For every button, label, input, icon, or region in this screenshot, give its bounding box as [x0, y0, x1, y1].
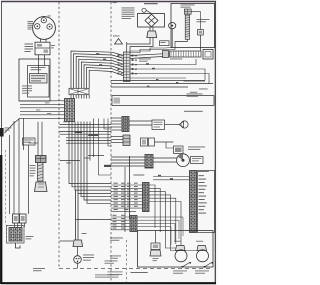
compressor compartment outer box	[19, 59, 50, 101]
board pin label B7	[199, 195, 207, 198]
board row A4 label	[114, 192, 118, 195]
wire relay to capacitor box b	[44, 55, 46, 59]
wire misc vert right 2	[99, 119, 112, 176]
wire left vertical 4	[23, 119, 25, 151]
ff switch label	[195, 270, 209, 273]
outlet label	[83, 254, 94, 257]
ac strip ticks row 1	[118, 55, 120, 57]
wire left vertical 3	[18, 119, 20, 215]
wire bundle left row 4	[20, 110, 65, 112]
wire label mark b	[104, 165, 111, 167]
board pin label B5	[199, 188, 206, 191]
wire sw to damper box	[155, 141, 174, 143]
heater row tick a	[146, 63, 149, 65]
wire 12v row 1	[111, 117, 122, 119]
small relay box	[160, 41, 170, 46]
wire center drop corner 7	[87, 122, 111, 204]
wire heater column a	[37, 122, 39, 156]
wire center riser lower 8	[88, 95, 90, 99]
heater sleeve	[38, 163, 44, 182]
board pin label B6	[199, 191, 204, 194]
wire 12v row 3	[111, 123, 122, 125]
wire heater to terminal	[191, 12, 200, 30]
compressor run terminal R	[47, 24, 52, 29]
wire board row C2	[111, 219, 130, 221]
12v conn 2	[123, 135, 130, 146]
wire center riser lower 2	[73, 95, 75, 99]
plug pins	[14, 223, 16, 227]
wire A-to-down 2	[149, 188, 160, 232]
heater sleeve label	[30, 164, 36, 167]
wire 12v row 4	[111, 126, 122, 128]
wire inside compartment a	[38, 59, 40, 74]
board row A8 label	[114, 205, 118, 208]
wire row2 a	[111, 136, 123, 138]
wire center drop corner 1	[69, 122, 111, 184]
bottom center text	[95, 274, 119, 277]
dashed divider x126	[126, 240, 128, 283]
wire branch row D	[66, 142, 111, 144]
border frame top	[1, 1, 216, 3]
wire bundle left row 6	[20, 117, 65, 119]
wire row labels	[45, 102, 49, 105]
wire center riser 7	[87, 68, 124, 89]
wire 12v row 5	[111, 129, 122, 131]
left small text a	[110, 255, 121, 258]
heater end box	[203, 50, 213, 60]
board row A5 label	[114, 195, 118, 198]
board row A1 label	[114, 182, 118, 185]
wire board row A4	[111, 194, 143, 196]
heater plug	[35, 182, 48, 192]
wire mid seg label	[84, 157, 90, 160]
wire left vertical 2	[13, 121, 15, 214]
dashed divider x59	[58, 2, 60, 269]
ff lamp connector	[197, 246, 207, 251]
ac strip ticks row 4	[118, 68, 120, 70]
wire misc vert right 3	[104, 119, 111, 130]
icemaker label box	[191, 157, 204, 164]
wire center drop corner 6	[84, 122, 111, 201]
relay label left	[25, 44, 34, 45]
compressor terminal label	[48, 15, 51, 18]
wire center riser lower 1	[70, 95, 72, 99]
damper motor	[177, 154, 190, 167]
wire board row A5	[111, 197, 143, 199]
wire nut box	[23, 138, 36, 145]
wire ice row 1	[111, 156, 145, 158]
wire bundle left row 5	[20, 114, 65, 116]
left small text b	[105, 260, 118, 263]
control board left edge	[129, 156, 131, 219]
wire board row C1	[111, 216, 130, 218]
left plug P1	[13, 214, 20, 223]
wire relay to capacitor box a	[38, 55, 40, 59]
wire ice to circle	[153, 157, 177, 159]
ambient thermistor	[115, 39, 123, 45]
freezer lamp connector	[176, 246, 186, 251]
wire center riser 4	[79, 59, 124, 88]
small circle node	[142, 8, 146, 12]
wire branch row A2	[60, 126, 112, 128]
lamp module box	[152, 120, 165, 130]
wire compressor to relay right	[45, 39, 47, 42]
dashed divider bottom y268	[59, 268, 213, 270]
wire ice row 2	[111, 159, 145, 161]
border frame bottom	[1, 282, 216, 284]
wire compressor to relay left	[40, 39, 42, 42]
wire outlet to dash	[77, 263, 79, 268]
heater row tick b	[152, 68, 155, 70]
wire plug feed	[155, 231, 157, 244]
wire board row A8	[111, 207, 143, 209]
board pin label B12	[199, 212, 207, 215]
wire center riser 1	[71, 51, 124, 88]
defrost heater connector	[184, 9, 191, 14]
wire bundle left row 3	[20, 107, 65, 109]
ac harness label	[187, 93, 203, 96]
board row A9 label	[114, 208, 118, 211]
wire evap conn drop b	[130, 38, 153, 53]
board row A3 label	[114, 188, 118, 191]
ice connector block	[145, 155, 153, 169]
evaporator fan label	[144, 2, 158, 5]
power feed diagonal wire	[5, 118, 21, 133]
freezer switch label	[173, 270, 187, 273]
bottom text block	[108, 271, 123, 274]
wire center riser lower 6	[83, 95, 85, 99]
ff switch	[205, 263, 212, 267]
capacitor label above	[31, 66, 46, 69]
run capacitor	[30, 74, 48, 84]
heater strip label	[170, 58, 182, 61]
wire node to box	[146, 10, 151, 13]
wire misc vert right 1	[93, 119, 95, 158]
border frame left black band	[0, 155, 2, 284]
wire mid seg 2	[60, 160, 80, 162]
wire lamp to led	[165, 124, 180, 126]
light box plug upper	[151, 243, 160, 250]
wire board row C5	[111, 229, 130, 231]
compressor motor circle	[33, 17, 56, 40]
wire branch row A1	[60, 124, 112, 126]
ac harness bottom line	[112, 105, 214, 107]
board pin label B3	[199, 181, 205, 184]
defrost thermostat oval	[169, 23, 176, 29]
defrost box	[171, 4, 215, 48]
riser row tick a	[96, 53, 99, 55]
PWR label	[5, 127, 12, 130]
wire ice row 4	[111, 165, 145, 167]
evap fan connector	[147, 31, 157, 38]
wire center riser lower 7	[86, 95, 88, 99]
wire strip right row 4	[130, 69, 205, 80]
cab air label	[184, 81, 206, 82]
compressor compartment inner box	[28, 66, 50, 98]
wire board row A3	[111, 191, 143, 193]
ff lamp	[197, 250, 209, 262]
wire board row A7	[111, 204, 143, 206]
overload relay box	[35, 42, 50, 55]
capacitor label below	[22, 85, 32, 88]
wire label mark a	[89, 134, 99, 136]
ff compact label	[110, 237, 123, 240]
light box plug lower	[150, 250, 161, 256]
board pin strip B	[190, 171, 197, 233]
heater connector block	[36, 156, 47, 163]
wire center drop 8	[89, 122, 91, 161]
board row C2 label	[113, 217, 117, 220]
wire bundle left row 1	[20, 100, 65, 102]
wire board row A6	[111, 201, 143, 203]
wire center drop corner 4	[78, 122, 111, 194]
led symbol	[179, 122, 184, 128]
wire thermostat route	[130, 48, 172, 52]
board pin label B8	[199, 198, 205, 201]
defrost sensor label	[197, 18, 210, 21]
damper labels	[188, 146, 205, 149]
12v connector block	[122, 117, 129, 132]
board conn C	[130, 216, 137, 232]
power cord dashed box	[7, 226, 25, 244]
wire A-to-down 3	[149, 192, 166, 246]
board pin strip A	[143, 183, 150, 212]
board row A2 label	[114, 185, 118, 188]
wire A-to-down 5	[149, 198, 176, 244]
wire strip right row 5	[130, 74, 209, 85]
damper module box	[174, 146, 184, 154]
board row C3 label	[113, 220, 117, 223]
wire branch row B2	[60, 133, 112, 135]
ac strip top lead	[126, 42, 128, 52]
ac strip ticks row 5	[118, 73, 120, 75]
wire left vertical pwr	[9, 135, 11, 214]
board pin label B11	[199, 208, 204, 211]
wire to left y241	[60, 240, 74, 242]
wire strip right row 3	[130, 59, 196, 65]
left edge blotch	[0, 128, 4, 137]
wire board row C3	[111, 222, 130, 224]
wire bottom long	[76, 190, 112, 219]
defrost terminal box	[198, 30, 204, 36]
border frame right	[214, 2, 216, 284]
wire strip to conn	[130, 54, 163, 56]
main harness connector	[65, 99, 75, 122]
evap fan pins	[149, 27, 151, 31]
wire ground drop a	[75, 220, 77, 241]
board row C4 label	[113, 223, 117, 226]
light box	[138, 231, 214, 268]
relay label right	[51, 44, 55, 47]
notes text block	[122, 7, 135, 10]
wire mid seg 1	[88, 155, 104, 157]
wire vertical x125	[124, 167, 126, 232]
board row A7 label	[114, 202, 118, 205]
amplifier centre label	[131, 272, 148, 273]
wire 12v row 2	[111, 120, 122, 122]
defrost heater strip	[170, 51, 202, 57]
wire corner to left	[29, 142, 39, 144]
wire center riser 2	[74, 54, 124, 89]
wire heater element exit	[175, 39, 187, 47]
wire board row A9	[111, 210, 136, 212]
harness asm label	[33, 267, 45, 270]
compressor label	[28, 20, 34, 23]
wire A-to-down 6	[149, 202, 181, 249]
ac harness right hook	[213, 96, 215, 106]
wire strip right row 6	[130, 77, 186, 79]
wire center drop corner 3	[75, 122, 111, 191]
branch labels	[76, 132, 82, 133]
connector label mid	[134, 175, 145, 176]
board label outline	[198, 171, 215, 233]
riser row tick b	[103, 59, 106, 61]
switch box a	[141, 138, 148, 146]
wire bundle left row 2	[20, 103, 65, 105]
wire center riser 3	[76, 57, 123, 89]
harness 12v label	[184, 111, 203, 112]
board pin label B10	[199, 205, 206, 208]
wire heater column b	[41, 122, 43, 156]
light labels	[174, 240, 181, 243]
wire ice row 3	[111, 162, 145, 164]
power cord label	[26, 235, 34, 238]
wire A-to-down 1	[149, 185, 155, 228]
wire 12v to lamp	[129, 120, 152, 122]
wire board row A2	[111, 187, 143, 189]
left plug P2	[20, 214, 27, 223]
board pin label B2	[199, 178, 207, 181]
wires above ac harness	[111, 80, 205, 82]
wire ground drop b	[77, 193, 79, 240]
wire board row A1	[111, 184, 143, 186]
wire board top row b	[153, 179, 190, 181]
GRN label	[82, 232, 87, 235]
wire center drop corner 5	[81, 122, 111, 197]
wire branch row B1	[60, 131, 112, 133]
wire evap conn drop a	[127, 38, 150, 45]
power plug grid	[9, 228, 22, 242]
freezer switch	[183, 263, 190, 267]
wire misc vert right 4	[108, 119, 111, 147]
board row C5 label	[113, 227, 117, 230]
wire terminal drop	[199, 35, 201, 51]
wire branch row C1	[66, 137, 111, 139]
board pin label B1	[199, 174, 204, 177]
wire center riser lower 3	[75, 95, 77, 99]
right text row b	[190, 91, 197, 94]
evaporator fan box	[138, 14, 165, 28]
wire center riser 8	[89, 70, 123, 88]
defrost heater label	[181, 4, 195, 7]
wire defrost drop mid	[130, 48, 175, 53]
ac harness left end	[111, 96, 113, 106]
top tiny label	[113, 1, 117, 4]
dashed wire left x5.5	[5, 150, 7, 225]
dashed divider x111	[110, 2, 112, 282]
wire branch row C2	[66, 140, 111, 142]
board pin label B9	[199, 201, 207, 204]
ac harness top line	[112, 95, 186, 97]
border frame left thin	[1, 2, 3, 158]
board J label	[198, 170, 209, 173]
wire board row C4	[111, 226, 130, 228]
board row C1 label	[113, 214, 117, 217]
wire thermostat drop	[171, 29, 173, 48]
compressor common terminal C	[41, 18, 46, 23]
switch box b	[149, 138, 155, 146]
defrost heater element	[185, 14, 189, 39]
wire plug to outlet	[77, 247, 79, 256]
power cord tail	[16, 243, 21, 248]
ground plug	[73, 240, 83, 247]
grounding outlet	[74, 256, 82, 264]
wire C to B	[137, 217, 183, 236]
board pin label B4	[199, 184, 207, 187]
wire A-to-down 4	[149, 195, 171, 246]
wire center riser 6	[84, 65, 124, 89]
lamp wires	[165, 246, 175, 249]
board row A6 label	[114, 198, 118, 201]
evaporator fan motor diamond	[145, 14, 158, 27]
ac connector strip	[124, 52, 131, 82]
compressor start terminal S	[35, 24, 40, 29]
heater conn left	[163, 51, 169, 58]
wire center riser lower 4	[78, 95, 80, 99]
ac strip ticks row 3	[118, 64, 120, 66]
wire center riser lower 5	[80, 95, 82, 99]
wire center drop corner 2	[72, 122, 111, 187]
wire center riser 5	[81, 62, 123, 88]
connector top cross component	[69, 88, 89, 94]
ac strip ticks row 2	[118, 59, 120, 61]
riser row tick c	[99, 64, 102, 66]
grn label	[153, 257, 159, 260]
right text row a	[199, 88, 208, 91]
wire left vertical 4b	[28, 145, 30, 214]
wire inside compartment b	[44, 59, 46, 66]
freezer lamp	[175, 250, 187, 262]
wire board top row a	[153, 176, 190, 178]
